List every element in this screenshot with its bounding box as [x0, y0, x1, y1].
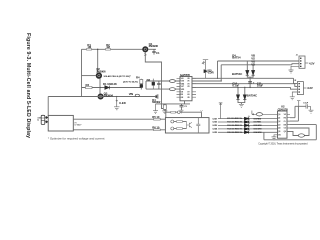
U1 left pins: [177, 78, 181, 97]
wire top rail: [82, 48, 143, 50]
svg-text:J2: J2: [294, 80, 296, 82]
junction node E: [221, 80, 222, 81]
LED D10 emission arrows: [247, 116, 250, 118]
resistor R7: [164, 104, 166, 111]
Q1 emitter marks: [144, 54, 146, 56]
wire L1: [218, 60, 300, 62]
wire bus LED4: [218, 128, 278, 130]
wire L3: [192, 78, 297, 83]
svg-text:BAT54C: BAT54C: [247, 94, 257, 98]
U2 pin names: [278, 114, 287, 137]
ground GND8: [272, 137, 277, 140]
junction node A: [249, 87, 250, 88]
svg-text:R6 10: R6 10: [152, 125, 160, 129]
svg-text:C3: C3: [184, 106, 187, 108]
wire W4 left drop to pack: [47, 97, 49, 116]
battery BT1: [41, 115, 45, 124]
svg-text:D14 GRN: D14 GRN: [254, 131, 262, 134]
wire vdd rail: [290, 106, 306, 121]
wire W6: [73, 129, 165, 131]
svg-text:R4: R4: [136, 75, 140, 79]
transistor Q1: [143, 47, 148, 52]
wire L5: [192, 87, 297, 89]
wire L2: [221, 64, 299, 65]
lamp DS0: [178, 111, 181, 114]
svg-text:2N3904: 2N3904: [104, 93, 114, 97]
ground GND4: [180, 110, 184, 113]
wire L1 riser: [217, 61, 219, 78]
resistor R9: [174, 121, 187, 123]
wire V2 to Q2: [97, 49, 99, 72]
svg-text:VD: VD: [251, 62, 255, 66]
LED D13 emission arrows: [247, 126, 250, 128]
wire Q1 right stub: [148, 48, 156, 50]
wire module top: [166, 112, 202, 117]
svg-text:SOLAR CELLS (4V TO 20V)*: SOLAR CELLS (4V TO 20V)*: [104, 75, 131, 78]
wire W2: [82, 75, 97, 77]
wire loop inner: [287, 128, 309, 136]
svg-text:VO: VO: [187, 83, 190, 85]
LED D14: [245, 131, 249, 133]
svg-text:Q9: Q9: [284, 131, 286, 133]
svg-text:R11 330 RED 5%: R11 330 RED 5%: [227, 118, 242, 120]
svg-text:EN: EN: [284, 124, 287, 126]
svg-text:D12 GRN: D12 GRN: [254, 125, 262, 127]
svg-text:VRD: VRD: [181, 89, 185, 91]
ground GND6: [289, 70, 294, 73]
svg-text:D1 1N4148: D1 1N4148: [103, 82, 117, 86]
svg-text:J1: J1: [296, 55, 298, 57]
U2 left pins: [275, 114, 278, 135]
LED D12 emission arrows: [247, 123, 250, 125]
U1 right pins: [192, 78, 196, 97]
LED D14 emission arrows: [247, 129, 250, 131]
wires E1 E2 to U1: [175, 81, 180, 89]
crystal Y1: [256, 113, 262, 116]
resistor R5: [154, 118, 161, 120]
bus feed arrow: [219, 103, 223, 119]
connector J1: [299, 56, 305, 68]
wire bus LED3: [218, 124, 278, 126]
svg-text:D10 RED: D10 RED: [254, 118, 262, 120]
capacitor C5: [196, 118, 200, 133]
svg-text:(4.5V TO 25.2V): (4.5V TO 25.2V): [123, 81, 138, 84]
svg-text:VIN: VIN: [129, 92, 133, 96]
svg-text:VD: VD: [284, 114, 287, 116]
svg-text:Q0: Q0: [278, 114, 280, 116]
svg-text:LDR: LDR: [208, 70, 214, 74]
svg-text:Q1: Q1: [278, 117, 280, 119]
resistor R3: [86, 86, 93, 88]
wire diode join B: [238, 100, 245, 104]
svg-text:GN: GN: [181, 97, 184, 99]
svg-text:R15 330 RED 5%: R15 330 RED 5%: [227, 132, 242, 134]
wire diode join: [247, 75, 253, 87]
svg-text:LED2: LED2: [213, 122, 218, 124]
junction node D: [217, 78, 218, 79]
svg-text:Q2: Q2: [278, 121, 280, 123]
diode D5: [252, 65, 254, 71]
svg-text:CO: CO: [284, 128, 287, 130]
wire L4: [192, 84, 297, 87]
ground GND3: [162, 111, 167, 114]
svg-text:SI2302: SI2302: [152, 100, 161, 104]
resistor R2: [106, 49, 111, 51]
resistor R10: [174, 128, 187, 130]
transistor Q4: [155, 94, 158, 98]
diode D9: [45, 121, 48, 123]
svg-text:LED5: LED5: [213, 132, 218, 134]
resistor R1: [87, 49, 92, 51]
inductor E2: [170, 88, 176, 91]
wire W4: [48, 96, 157, 98]
junction node B1: [237, 87, 238, 88]
svg-text:LI: LI: [37, 119, 39, 121]
lamp DS1: [171, 120, 174, 123]
junction node B2: [244, 87, 245, 88]
diode D6: [237, 87, 239, 94]
lamp DS2: [171, 127, 174, 130]
ground GND7: [290, 97, 295, 100]
capacitor C4: [248, 82, 252, 83]
svg-text:BAT54C: BAT54C: [232, 72, 242, 76]
LED D12: [245, 124, 249, 126]
svg-text:VB: VB: [187, 78, 190, 80]
svg-text:3.3V: 3.3V: [307, 86, 313, 90]
wire Q2 to Q3: [99, 78, 101, 94]
svg-text:D13 GRN: D13 GRN: [254, 129, 262, 131]
svg-text:R3: R3: [86, 83, 90, 87]
capacitor C1: [152, 49, 155, 54]
junction node F: [116, 96, 117, 97]
diode D7: [244, 87, 246, 94]
wire J1 gnd: [291, 66, 299, 70]
wire V1 left vertical: [81, 49, 83, 96]
ground GND2: [153, 104, 158, 114]
LED D11 emission arrows: [247, 119, 250, 121]
fuse F1: [135, 94, 139, 96]
wire W5: [73, 118, 165, 120]
zener D2: [140, 84, 143, 87]
LED D10: [245, 117, 249, 119]
svg-text:CD4017B: CD4017B: [278, 108, 288, 111]
svg-text:2N3906: 2N3906: [149, 44, 159, 48]
op-amp U2 box: [278, 111, 288, 138]
svg-text:4.2V: 4.2V: [309, 61, 315, 65]
U1 pin names: [181, 78, 191, 99]
svg-text:OT: OT: [187, 92, 190, 94]
junction node G: [100, 87, 101, 88]
svg-text:GN: GN: [278, 135, 281, 137]
svg-text:VB: VB: [187, 97, 190, 99]
wire bus LED5: [218, 131, 278, 133]
LED module box: [165, 118, 209, 133]
zener D3: [152, 82, 155, 85]
svg-text:R5 10: R5 10: [152, 115, 160, 119]
svg-text:Figure 9-3. Multi-Cell and 5-L: Figure 9-3. Multi-Cell and 5-LED Display: [25, 33, 31, 138]
svg-text:VS: VS: [187, 81, 190, 83]
svg-text:10uF: 10uF: [257, 84, 264, 88]
LED D13: [245, 128, 249, 130]
diode D8: [45, 116, 48, 118]
wire loop outer: [264, 125, 316, 140]
wire bus LED2: [218, 121, 278, 123]
RC network wires: [146, 81, 170, 89]
svg-text:0.1uF: 0.1uF: [303, 103, 309, 105]
svg-text:R13 330 RED 5%: R13 330 RED 5%: [227, 125, 242, 127]
VDD T: [297, 101, 300, 107]
wire arrow branch: [116, 97, 118, 102]
diode D4: [246, 61, 248, 70]
crystal Y2: [298, 134, 304, 137]
U2 right pins: [287, 114, 290, 131]
svg-text:R14 330 RED 5%: R14 330 RED 5%: [227, 128, 242, 131]
ground GND9: [309, 110, 314, 113]
svg-text:D3: D3: [147, 78, 151, 82]
wire W3: [82, 87, 142, 89]
wire J2 gnd: [292, 92, 297, 97]
inductor E1: [170, 80, 176, 83]
LED D11: [245, 121, 249, 123]
svg-text:D11 RED: D11 RED: [254, 122, 262, 124]
svg-text:BAT54: BAT54: [232, 56, 241, 60]
svg-text:RS: RS: [284, 117, 287, 119]
capacitor C6: [306, 104, 311, 110]
svg-text:LED4: LED4: [213, 128, 219, 131]
svg-text:C1: C1: [156, 51, 160, 55]
svg-text:* Optimize for required voltag: * Optimize for required voltage and curr…: [48, 137, 105, 141]
op-amp U1 box: [180, 77, 192, 101]
wire pin2 to L2: [192, 65, 221, 81]
svg-text:LED3: LED3: [213, 125, 218, 127]
svg-text:VBA: VBA: [181, 82, 185, 85]
svg-text:LED1: LED1: [213, 118, 218, 120]
labels bus nets: [213, 118, 262, 134]
svg-text:Copyright © 2016, Texas Instru: Copyright © 2016, Texas Instruments Inco…: [258, 143, 308, 146]
svg-text:LB: LB: [187, 94, 190, 96]
battery pack box: [48, 115, 73, 131]
svg-text:I LED: I LED: [119, 101, 126, 105]
svg-text:OK: OK: [181, 92, 184, 94]
connector J2: [297, 82, 303, 95]
wire Q1 emitter drop: [145, 52, 166, 118]
svg-text:VST: VST: [181, 86, 185, 88]
ground GND5: [239, 104, 244, 107]
resistor R8: [171, 111, 176, 113]
svg-text:VR: VR: [187, 86, 190, 88]
capacitor C2: [157, 81, 160, 89]
diode D1: [105, 86, 110, 90]
svg-text:Q5: Q5: [278, 131, 280, 133]
transistor Q6: [187, 122, 192, 129]
svg-text:5V MAX *: 5V MAX *: [74, 124, 82, 127]
photo sensor Q5: [203, 60, 208, 79]
svg-text:R12 330 RED 5%: R12 330 RED 5%: [227, 122, 242, 124]
wire U2 gnd: [273, 135, 276, 137]
resistor R6: [154, 129, 161, 131]
svg-text:2N3906: 2N3906: [96, 69, 106, 73]
svg-text:VSS: VSS: [181, 81, 185, 83]
svg-text:bq25505: bq25505: [180, 73, 190, 77]
svg-text:Q3: Q3: [278, 124, 280, 126]
junction node C: [97, 49, 98, 50]
svg-text:EN: EN: [181, 94, 184, 96]
ground GND1: [114, 102, 120, 110]
svg-text:VIN: VIN: [181, 78, 185, 80]
svg-text:Q4: Q4: [278, 127, 280, 130]
figure sidebar caption: [25, 33, 31, 138]
svg-text:CL: CL: [284, 121, 287, 123]
resistor R4 branch: [140, 79, 142, 90]
transistor Q3: [98, 94, 103, 99]
wire bus LED1: [218, 118, 278, 120]
transistor Q2: [96, 73, 101, 78]
capacitor C3: [180, 104, 184, 110]
svg-text:0.1uF: 0.1uF: [232, 84, 239, 88]
U1 bottom wire: [156, 101, 191, 104]
